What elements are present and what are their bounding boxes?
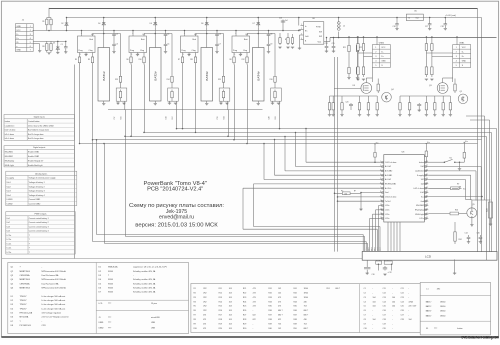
svg-text:430: 430 xyxy=(304,301,307,303)
resistor pair (VCC sense) xyxy=(425,37,427,42)
wire: long feedback verticals xyxy=(334,57,336,252)
wire: U1 Batt output xyxy=(93,33,121,35)
wire: +Vbat top bus xyxy=(49,8,478,10)
svg-text:DVD.Datasheet-catalog.com: DVD.Datasheet-catalog.com xyxy=(462,336,500,340)
svg-text:Current control battery 3: Current control battery 3 xyxy=(29,225,49,228)
wire: J1 VCC to +5V rail xyxy=(32,30,35,32)
svg-text:R28: R28 xyxy=(243,319,246,321)
svg-text:14: 14 xyxy=(380,217,382,219)
svg-text:Schottky rectifier 40V, 3A: Schottky rectifier 40V, 3A xyxy=(133,282,156,285)
svg-text:EN-USB2: EN-USB2 xyxy=(5,156,13,158)
svg-text:R3: R3 xyxy=(42,46,44,48)
svg-text:23: 23 xyxy=(426,182,428,184)
svg-text:R48: R48 xyxy=(294,319,297,321)
svg-text:EN-Display: EN-Display xyxy=(415,210,424,212)
svg-text:BAT3#: BAT3# xyxy=(205,71,209,81)
svg-text:622: 622 xyxy=(253,315,256,317)
svg-text:Li-Ion charger 500 mA asic: Li-Ion charger 500 mA asic xyxy=(42,299,66,302)
svg-text:2u2: 2u2 xyxy=(285,20,288,22)
svg-text:CEN9926A: CEN9926A xyxy=(20,274,31,277)
svg-text:13: 13 xyxy=(380,213,382,215)
svg-text:PIC16F1503: PIC16F1503 xyxy=(20,325,32,327)
ground: U2 pin 2 xyxy=(136,54,139,56)
wire: U2 Vcc to +5V rail xyxy=(132,31,134,35)
wire: control bus 1 xyxy=(177,128,497,130)
capacitor C23 xyxy=(418,103,420,104)
wire: U2 Batt output xyxy=(144,33,172,35)
resistor pair (VCC sense) xyxy=(357,37,359,42)
capacitor C10 below LCD xyxy=(366,260,368,267)
svg-text:CPU: CPU xyxy=(42,325,47,327)
svg-text:C18: C18 xyxy=(441,26,444,28)
svg-text:USB2: USB2 xyxy=(99,327,104,329)
svg-text:R20: R20 xyxy=(219,328,222,330)
svg-text:R30: R30 xyxy=(243,328,246,330)
resistor R18 xyxy=(287,36,289,45)
charger IC U1 xyxy=(78,36,96,53)
svg-text:R11: R11 xyxy=(219,288,222,290)
svg-text:I-b2: I-b2 xyxy=(7,222,10,224)
resistor R8 (Prog) xyxy=(233,55,235,64)
ground U6 GnD xyxy=(300,34,301,36)
svg-text:LCDs: LCDs xyxy=(7,248,12,250)
wire: cell2 sense down-run xyxy=(176,110,178,129)
svg-text:15: 15 xyxy=(426,217,428,219)
svg-text:GND: GND xyxy=(381,60,386,62)
charger IC U2 xyxy=(129,36,147,53)
svg-text:Current control battery 4: Current control battery 4 xyxy=(29,230,49,233)
svg-text:Chrg: Chrg xyxy=(140,49,144,52)
ground xyxy=(376,112,378,114)
svg-text:Ub1: Ub1 xyxy=(421,166,424,168)
svg-text:Dual N-channel 8A: Dual N-channel 8A xyxy=(42,282,59,285)
svg-text:1&4: 1&4 xyxy=(421,184,424,186)
svg-text:enved@mail.ru: enved@mail.ru xyxy=(159,214,194,220)
ground C14 xyxy=(467,242,470,244)
svg-text:R3: R3 xyxy=(194,297,196,299)
svg-text:???: ??? xyxy=(434,328,437,330)
wire: right bus drop from +Vbat bus xyxy=(477,9,479,253)
svg-text:R2: R2 xyxy=(194,292,196,294)
wire: Vout to +5V output rail xyxy=(324,41,330,43)
ground R23 xyxy=(347,78,350,80)
svg-text:1&2: 1&2 xyxy=(421,179,424,181)
svg-text:3: 3 xyxy=(375,56,376,58)
ground Q5 emitter xyxy=(470,225,473,227)
svg-text:103: 103 xyxy=(229,301,232,303)
battery BAT2# xyxy=(150,48,162,102)
capacitor C17r xyxy=(429,18,431,24)
wire: U4 Vcc to +5V rail xyxy=(235,31,237,35)
svg-text:473: 473 xyxy=(278,301,281,303)
svg-text:473: 473 xyxy=(203,324,206,326)
svg-text:4: 4 xyxy=(30,38,31,40)
svg-text:680 ?: 680 ? xyxy=(278,310,283,312)
current sense block C17/R16 xyxy=(116,88,127,101)
svg-text:U-b3: U-b3 xyxy=(7,191,11,193)
capacitor C8 xyxy=(268,31,270,35)
svg-text:R10: R10 xyxy=(194,328,197,330)
svg-text:C1: C1 xyxy=(61,44,63,46)
transistor Q4 xyxy=(382,92,392,102)
svg-text:2R2: 2R2 xyxy=(203,310,206,312)
svg-text:NPN-transistor 40V 200mA: NPN-transistor 40V 200mA xyxy=(42,278,67,281)
svg-text:Schottky rectifier 40V, 3A: Schottky rectifier 40V, 3A xyxy=(133,278,156,281)
ground C12 xyxy=(383,274,386,276)
svg-text:TP4057: TP4057 xyxy=(20,308,28,310)
svg-text:C9: C9 xyxy=(364,324,366,326)
resistor R22 divider xyxy=(357,37,359,44)
wire: control bus 2 xyxy=(144,132,492,134)
Vcc pullup R at CPU pin1 xyxy=(374,144,376,146)
svg-text:R6: R6 xyxy=(194,310,196,312)
svg-text:102: 102 xyxy=(278,292,281,294)
svg-text:R22: R22 xyxy=(243,292,246,294)
svg-text:Q5: Q5 xyxy=(472,204,475,206)
svg-text:+C12: +C12 xyxy=(388,272,392,274)
svg-text:C4: C4 xyxy=(364,301,366,303)
svg-text:104: 104 xyxy=(373,301,376,303)
svg-text:103: 103 xyxy=(229,292,232,294)
svg-text:Schottky rectifier 40V, 3A: Schottky rectifier 40V, 3A xyxy=(133,287,156,290)
svg-text:Voltage of battery 3: Voltage of battery 3 xyxy=(29,190,45,193)
charger cell U4 xyxy=(229,17,281,120)
svg-text:1: 1 xyxy=(375,47,376,49)
svg-text:47k: 47k xyxy=(344,193,347,195)
ground below battery BAT3# xyxy=(206,101,208,103)
svg-text:SW: SW xyxy=(319,36,322,38)
wire: U1 Vcc to +5V rail xyxy=(81,31,83,35)
resistor at Q3 drain xyxy=(454,82,456,93)
svg-text:???: ??? xyxy=(108,303,111,305)
svg-text:R35: R35 xyxy=(268,306,271,308)
svg-text:C18: C18 xyxy=(383,319,386,321)
svg-text:Vcc: Vcc xyxy=(427,142,430,144)
svg-text:1: 1 xyxy=(30,26,31,28)
battery BAT1# xyxy=(98,48,110,102)
wire: CPU pin7 run to LCD xyxy=(243,187,380,189)
svg-text:In: In xyxy=(409,18,411,20)
wire: battery output bus xyxy=(67,17,482,19)
svg-text:Chrg: Chrg xyxy=(192,49,196,52)
svg-text:R21: R21 xyxy=(343,47,346,49)
svg-text:5: 5 xyxy=(30,42,31,44)
svg-text:D-: D- xyxy=(16,34,18,36)
svg-text:BAT2#: BAT2# xyxy=(153,71,157,81)
svg-text:R47: R47 xyxy=(294,315,297,317)
svg-text:103: 103 xyxy=(229,315,232,317)
svg-text:Schottky rectifier 40V, 3A: Schottky rectifier 40V, 3A xyxy=(133,270,156,273)
ground below sense block xyxy=(169,101,171,103)
svg-text:R7: R7 xyxy=(194,315,196,317)
svg-text:USB1: USB1 xyxy=(99,322,104,324)
wire: U1 chrg down-run xyxy=(92,65,94,242)
svg-text:18650: 18650 xyxy=(440,315,445,317)
svg-text:27: 27 xyxy=(426,165,428,167)
svg-text:104: 104 xyxy=(373,297,376,299)
wire: gate feed xyxy=(334,88,361,90)
svg-text:TP4057: TP4057 xyxy=(20,300,28,302)
svg-text:Schottky rectifier 40V, 3A: Schottky rectifier 40V, 3A xyxy=(133,291,156,294)
svg-text:LCD: LCD xyxy=(99,303,103,305)
svg-text:Vcc: Vcc xyxy=(376,143,379,145)
wire: battery negative link xyxy=(211,109,263,111)
wire: bottom bus C xyxy=(93,241,367,243)
svg-text:Li-Ion charger 500 mA asic: Li-Ion charger 500 mA asic xyxy=(42,295,66,298)
svg-text:21: 21 xyxy=(426,191,428,193)
wires: CPU left pin harness xyxy=(306,161,380,163)
ground below battery BAT2# xyxy=(154,101,156,103)
ground below D1 xyxy=(56,52,59,54)
svg-text:R26: R26 xyxy=(243,310,246,312)
svg-text:C14: C14 xyxy=(383,301,386,303)
svg-text:?: ? xyxy=(29,239,30,241)
battery BAT3# xyxy=(201,48,213,102)
mosfet Q3 xyxy=(437,83,448,94)
svg-text:R36: R36 xyxy=(268,310,271,312)
svg-text:R29: R29 xyxy=(243,324,246,326)
svg-text:5: 5 xyxy=(456,65,457,67)
wire: U3 chrg down-run xyxy=(195,65,197,133)
svg-text:C19: C19 xyxy=(217,116,219,119)
Vcc pullup R right 2 (S1) xyxy=(463,142,465,144)
ground C24 xyxy=(325,51,328,53)
svg-text:suppressor: off at 5v, on at 6: suppressor: off at 5v, on at 6.40-7.07V xyxy=(133,266,168,269)
resistor R47 xyxy=(442,101,444,113)
CPU U8 (PIC16F1503) xyxy=(380,151,429,222)
svg-text:Li-Ion charger 500 mA asic: Li-Ion charger 500 mA asic xyxy=(42,303,66,306)
svg-text:2: 2 xyxy=(456,51,457,53)
capacitor C4 xyxy=(165,31,167,35)
svg-text:Q4: Q4 xyxy=(391,89,394,91)
svg-text:R24: R24 xyxy=(459,239,462,241)
svg-text:R12: R12 xyxy=(219,292,222,294)
ground below sense block xyxy=(220,101,222,103)
resistor R46 xyxy=(434,101,436,113)
svg-text:Voltage of battery 2: Voltage of battery 2 xyxy=(29,185,45,188)
svg-text:R41: R41 xyxy=(294,288,297,290)
svg-text:R39: R39 xyxy=(268,324,271,326)
svg-text:473: 473 xyxy=(253,306,256,308)
resistor R7 (Prog) xyxy=(181,55,183,64)
wire: battery negative link xyxy=(160,109,212,111)
svg-text:GND: GND xyxy=(16,50,21,52)
svg-text:Vout: Vout xyxy=(318,41,322,44)
wire: right aux feed 6 xyxy=(466,115,485,117)
svg-text:Chrg: Chrg xyxy=(243,49,247,52)
charger cell U3 xyxy=(178,17,263,120)
resistor R5 (Prog) xyxy=(78,55,80,64)
svg-text:R45: R45 xyxy=(294,306,297,308)
svg-text:D8: D8 xyxy=(201,23,203,25)
svg-text:b3 ch done: b3 ch done xyxy=(5,134,14,136)
svg-text:Gnd: Gnd xyxy=(420,201,423,203)
ground C16 xyxy=(395,28,398,30)
wire: U4 Batt output xyxy=(247,33,275,35)
svg-text:BAT2#: BAT2# xyxy=(426,305,433,308)
page bottom border band xyxy=(1,336,498,338)
ground below C3 xyxy=(112,52,115,54)
svg-text:C8: C8 xyxy=(364,319,366,321)
svg-text:R1: R1 xyxy=(194,288,196,290)
svg-text:18650: 18650 xyxy=(440,311,445,313)
svg-text:622: 622 xyxy=(278,319,281,321)
ground R24 xyxy=(356,78,359,80)
svg-text:R32: R32 xyxy=(268,292,271,294)
ground below sense block xyxy=(117,101,119,103)
wire: right aux drop 7 xyxy=(489,120,491,252)
resistor R15 (sense) xyxy=(223,34,225,75)
wire: right bus drop 3 xyxy=(486,137,488,261)
svg-text:22: 22 xyxy=(426,187,428,189)
svg-text:R18: R18 xyxy=(219,319,222,321)
svg-text:?: ? xyxy=(29,243,30,245)
svg-text:Dual N-channel 8A: Dual N-channel 8A xyxy=(42,274,59,277)
svg-text:24: 24 xyxy=(426,178,428,180)
svg-text:LoadDetect: LoadDetect xyxy=(5,124,15,127)
svg-text:C22: C22 xyxy=(401,292,404,294)
svg-text:R16: R16 xyxy=(121,116,123,119)
svg-text:At U2ch: At U2ch xyxy=(385,187,391,190)
svg-text:17: 17 xyxy=(426,208,428,210)
diode D2 xyxy=(65,18,68,31)
svg-text:EN B-Light: EN B-Light xyxy=(415,213,424,216)
resistor R23 xyxy=(348,54,350,66)
svg-text:I-USB1: I-USB1 xyxy=(7,199,13,201)
ground xyxy=(442,112,444,114)
svg-text:C7: C7 xyxy=(219,44,221,46)
svg-text:C21: C21 xyxy=(401,288,404,290)
svg-text:Ch3/4 ch done: Ch3/4 ch done xyxy=(385,197,396,199)
transistor Q1 xyxy=(458,94,468,104)
ground below USB1 divider xyxy=(425,79,428,81)
wire: U2 prog down-run xyxy=(131,65,133,137)
svg-text:104: 104 xyxy=(392,306,395,308)
ground: U1 pin 2 xyxy=(84,54,87,56)
svg-text:C12: C12 xyxy=(383,292,386,294)
svg-text:3: 3 xyxy=(456,56,457,58)
svg-text:R38: R38 xyxy=(268,319,271,321)
battery BAT4# xyxy=(253,48,265,102)
svg-text:2R2: 2R2 xyxy=(203,306,206,308)
svg-text:C20: C20 xyxy=(346,102,349,104)
svg-text:SMBJ6.0A: SMBJ6.0A xyxy=(108,266,118,269)
wire: right bus drop 5 xyxy=(496,129,498,252)
svg-text:C16: C16 xyxy=(383,310,386,312)
svg-text:LCDs: LCDs xyxy=(7,243,12,245)
svg-text:I-USB2: I-USB2 xyxy=(7,204,13,206)
wire: control bus 5 xyxy=(80,143,478,145)
svg-text:R27: R27 xyxy=(243,315,246,317)
svg-text:button: button xyxy=(457,327,462,330)
svg-text:Bat#1,Bat#2 charge done: Bat#1,Bat#2 charge done xyxy=(28,129,49,132)
svg-text:Out: Out xyxy=(416,17,420,20)
svg-text:Current USB1: Current USB1 xyxy=(29,198,40,201)
svg-text:C7: C7 xyxy=(364,315,366,317)
svg-text:473: 473 xyxy=(203,319,206,321)
LCD display bar xyxy=(362,251,497,260)
svg-text:Gnd: Gnd xyxy=(385,192,388,194)
capacitor C5 xyxy=(165,36,167,44)
table: PWM outputs xyxy=(6,212,75,254)
svg-text:D2: D2 xyxy=(61,23,63,25)
connector USB1 xyxy=(453,42,471,67)
svg-text:Analog inputs: Analog inputs xyxy=(35,172,47,175)
svg-text:R20: R20 xyxy=(455,210,458,212)
svg-text:TP4057: TP4057 xyxy=(20,296,28,298)
resistor R1 xyxy=(46,18,48,27)
wire: U4 chrg down-run xyxy=(247,65,249,144)
svg-text:Prog: Prog xyxy=(79,49,83,52)
svg-text:At U-b2: At U-b2 xyxy=(385,178,391,181)
ground below C1 xyxy=(64,52,67,54)
svg-text:R49: R49 xyxy=(294,324,297,326)
svg-text:Vcc: Vcc xyxy=(465,141,468,143)
svg-text:473: 473 xyxy=(253,292,256,294)
svg-text:1R00: 1R00 xyxy=(304,292,308,294)
resistor R xyxy=(332,101,334,113)
svg-text:C5: C5 xyxy=(167,44,169,46)
diode D7 xyxy=(257,18,259,20)
svg-text:R7: R7 xyxy=(178,59,180,61)
svg-text:2: 2 xyxy=(375,51,376,53)
ground below R3/R4 xyxy=(47,53,50,55)
resistor R37 xyxy=(367,101,369,113)
table: Digital inputs xyxy=(4,115,75,141)
resistor R31 xyxy=(328,101,330,113)
svg-text:+5.0V (out): +5.0V (out) xyxy=(445,14,456,17)
svg-text:18650: 18650 xyxy=(440,302,445,304)
svg-text:C9: C9 xyxy=(270,44,272,46)
current sense block C18/R17 xyxy=(168,88,179,101)
ground C25 xyxy=(332,51,335,53)
svg-text:R50: R50 xyxy=(294,328,297,330)
svg-text:1R00: 1R00 xyxy=(304,288,308,290)
svg-text:BAT1#: BAT1# xyxy=(426,301,433,304)
ground xyxy=(341,112,343,114)
connector AUX backlight xyxy=(489,202,493,218)
ground R18 xyxy=(286,47,289,49)
svg-text:C24: C24 xyxy=(325,43,328,45)
wires: switch drive row xyxy=(330,95,378,97)
svg-text:Batt: Batt xyxy=(193,38,197,41)
wire: U6 In from battery bus xyxy=(298,18,300,26)
svg-text:103: 103 xyxy=(229,310,232,312)
svg-text:103: 103 xyxy=(229,297,232,299)
svg-text:R11: R11 xyxy=(190,59,193,61)
resistor block R26 below LCD xyxy=(375,259,377,262)
svg-text:R9: R9 xyxy=(88,59,90,61)
svg-text:???: ??? xyxy=(108,327,111,329)
svg-text:EN-StepUp: EN-StepUp xyxy=(5,159,14,162)
svg-text:J1: J1 xyxy=(99,317,101,319)
svg-text:11: 11 xyxy=(380,204,382,206)
resistor R39 xyxy=(376,101,378,113)
ground xyxy=(409,112,411,114)
svg-text:Q1: Q1 xyxy=(460,91,463,93)
mosfet U9 xyxy=(361,83,372,94)
svg-text:104: 104 xyxy=(392,297,395,299)
ground AUX xyxy=(489,224,492,226)
wires: CPU right pin nest xyxy=(428,166,481,168)
ground below sense block xyxy=(272,101,274,103)
resistor R35 xyxy=(358,101,360,113)
svg-text:C24: C24 xyxy=(401,301,404,303)
svg-text:U-b1: U-b1 xyxy=(420,192,424,194)
svg-text:Prog: Prog xyxy=(182,49,186,52)
svg-text:2R2: 2R2 xyxy=(437,288,440,290)
wire: J1 ID row to input protection xyxy=(33,40,66,42)
